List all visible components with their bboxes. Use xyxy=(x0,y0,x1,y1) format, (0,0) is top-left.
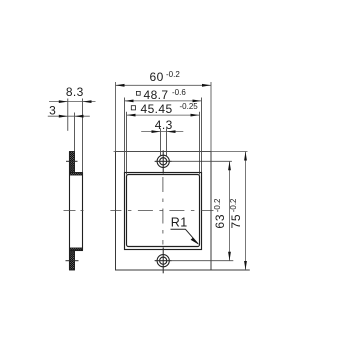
extension line: 3 right (bezel rear) xyxy=(74,113,76,152)
svg-text:-0.25: -0.25 xyxy=(180,102,199,111)
dimension 45.45: right arrow xyxy=(191,114,200,117)
side view: bezel rear edge bottom xyxy=(74,251,76,270)
svg-text:-0.2: -0.2 xyxy=(213,198,222,212)
side view: hatched bottom rear strip xyxy=(70,248,83,251)
front view: inner window square 45.45 with R1 corners xyxy=(127,175,200,247)
extension line: outer window right xyxy=(201,98,203,173)
extension line: plate top-right corner xyxy=(210,82,212,152)
dimension 63: line xyxy=(229,161,231,260)
top hole: vertical centerline xyxy=(162,150,164,173)
dimension 75: bottom arrow xyxy=(244,261,247,270)
side view: hatched top bezel block xyxy=(70,152,75,173)
side view: top hole centerline xyxy=(66,160,78,162)
front view: plate outline 60x75 xyxy=(116,152,212,271)
svg-text:R1: R1 xyxy=(171,216,188,230)
dimension 4.3: left arrow xyxy=(152,130,161,133)
side view: hatched bottom bezel block xyxy=(70,251,75,270)
side view: bottom hole centerline xyxy=(66,260,79,262)
extension line: 8.3 right (rear wall) xyxy=(82,99,84,173)
dimension 3: right arrow xyxy=(75,115,84,118)
front view: outer window square 48.7 xyxy=(125,173,202,250)
svg-text:45.45: 45.45 xyxy=(141,102,173,116)
svg-text:63: 63 xyxy=(213,214,227,229)
dimension 8.3: right arrow xyxy=(83,100,92,103)
extension line: plate top edge to 75 dim xyxy=(114,151,248,153)
dimension 75: top arrow xyxy=(244,152,247,161)
svg-text:-0.2: -0.2 xyxy=(229,198,238,212)
top mounting hole: outer circle xyxy=(157,155,169,167)
dimension 48.7: left arrow xyxy=(125,100,134,103)
dimension 60: right arrow xyxy=(202,84,211,87)
dimension 8.3: line xyxy=(49,101,96,103)
extension line: hole slot left xyxy=(160,128,162,156)
side view: rear wall edge xyxy=(82,173,84,251)
svg-text:4.3: 4.3 xyxy=(155,118,173,132)
svg-text:-0.6: -0.6 xyxy=(172,88,186,97)
svg-text:-0.2: -0.2 xyxy=(166,70,180,79)
svg-text:8.3: 8.3 xyxy=(66,85,84,99)
top hole: dark cross segment xyxy=(155,160,172,162)
dimension 63: top arrow xyxy=(228,161,231,170)
dimension 45.45: left arrow xyxy=(127,114,136,117)
dimension 3: left arrow xyxy=(59,115,68,118)
side view: bezel rear edge top xyxy=(74,152,76,173)
dimension 75: line xyxy=(245,152,247,271)
dimension 63: bottom arrow xyxy=(228,252,231,261)
bottom mounting hole: inner circle xyxy=(160,257,167,264)
window vertical centerline xyxy=(162,177,164,245)
dimension 48.7: line xyxy=(125,100,202,102)
bottom hole: vertical centerline xyxy=(162,248,164,274)
svg-text:3: 3 xyxy=(49,104,56,118)
svg-text:48.7: 48.7 xyxy=(144,88,169,102)
dimension 4.3: right arrow xyxy=(167,130,176,133)
side view: middle centerline xyxy=(64,210,87,212)
bottom hole: dark cross segment xyxy=(155,260,172,262)
extension line: outer window left xyxy=(124,98,126,173)
dimension 45.45: line xyxy=(127,114,200,116)
dimension 60: left arrow xyxy=(116,84,125,87)
dimension 48.7: right arrow xyxy=(193,100,202,103)
svg-text:60: 60 xyxy=(150,70,164,84)
side view: front face edge xyxy=(69,152,71,271)
dimension 45.45: square symbol xyxy=(131,106,135,110)
side view: hatched top rear strip xyxy=(70,173,83,176)
leader line R1 xyxy=(171,229,199,244)
bottom mounting hole: outer circle xyxy=(157,255,169,267)
top hole: horizontal centerline + 63 extension xyxy=(155,160,232,162)
dimension 8.3: left arrow xyxy=(59,100,68,103)
extension line: plate bottom edge to 75 dim xyxy=(116,269,250,271)
leader arrow R1 xyxy=(191,238,199,245)
svg-text:75: 75 xyxy=(229,214,243,229)
window horizontal centerline xyxy=(110,210,213,212)
extension line: hole slot right xyxy=(166,128,168,156)
extension line: inner window left xyxy=(126,112,128,175)
extension line: 8.3 left xyxy=(67,99,69,131)
dimension 48.7: square symbol xyxy=(136,91,140,95)
bottom hole: horizontal centerline + 63 extension xyxy=(155,260,234,262)
extension line: plate top-left corner xyxy=(115,82,117,152)
dimension 4.3: line xyxy=(141,131,183,133)
top mounting hole: inner circle xyxy=(160,158,167,165)
dimension 60: line xyxy=(116,84,212,86)
dimension 3: line xyxy=(48,115,90,117)
extension line: inner window right xyxy=(199,112,201,175)
